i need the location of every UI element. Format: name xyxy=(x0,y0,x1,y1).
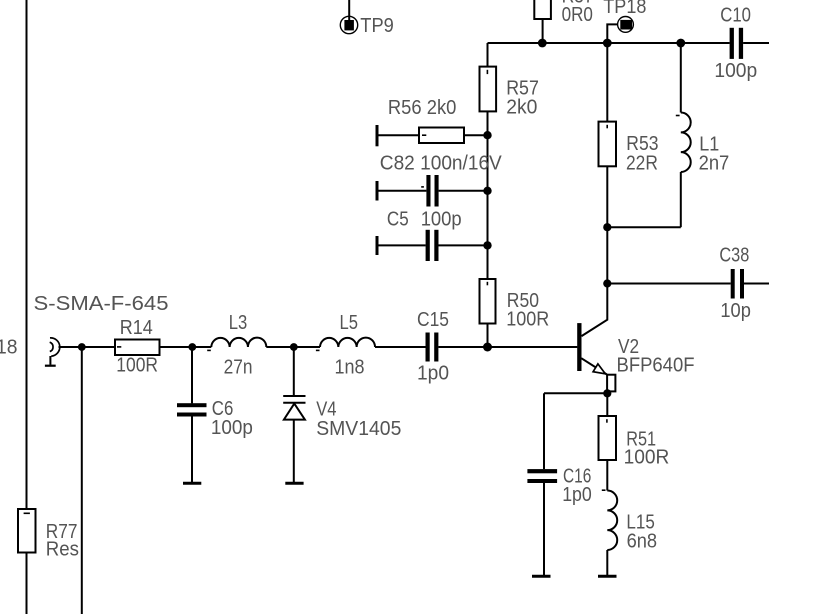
wire R51 bottom lead xyxy=(606,459,608,491)
ground below C6 xyxy=(183,482,201,485)
wire R50 bottom lead xyxy=(487,324,489,348)
wire left vertical net line upper xyxy=(26,0,28,509)
wire L1 node to collector node xyxy=(606,227,608,283)
svg-text:C5: C5 xyxy=(387,208,409,230)
node junction R50 bottom xyxy=(483,343,492,352)
capacitor C10 xyxy=(714,4,757,82)
wire top rail left segment xyxy=(488,42,730,44)
wire L5 to C15 xyxy=(375,346,426,348)
node junction L1 bottom xyxy=(603,223,611,231)
wire L15 bottom lead xyxy=(606,550,608,575)
node junction collector xyxy=(603,279,611,287)
svg-text:1p0: 1p0 xyxy=(562,484,592,506)
svg-text:R14: R14 xyxy=(120,317,153,339)
wire R53 bottom to L1 node xyxy=(606,166,608,227)
svg-text:R56 2k0: R56 2k0 xyxy=(388,97,457,119)
svg-text:SMV1405: SMV1405 xyxy=(316,418,401,440)
svg-text:10p: 10p xyxy=(720,300,751,322)
capacitor C38 xyxy=(719,244,769,322)
node junction at input xyxy=(78,343,86,351)
svg-text:C82 100n/16V: C82 100n/16V xyxy=(380,153,503,175)
resistor R56 xyxy=(377,97,488,146)
capacitor C16 xyxy=(527,465,591,506)
svg-text:22R: 22R xyxy=(626,152,658,174)
node junction C82 xyxy=(483,187,491,195)
node junction R56 xyxy=(483,131,491,139)
wire top rail right of C10 xyxy=(743,42,769,44)
svg-text:BFP640F: BFP640F xyxy=(617,355,695,377)
wire C6 top lead xyxy=(191,347,193,403)
inductor L3 xyxy=(207,312,266,379)
testpoint TP18 xyxy=(603,0,646,43)
resistor R51 xyxy=(599,416,670,469)
node junction emitter xyxy=(603,389,611,397)
wire C16 bottom lead xyxy=(543,483,545,575)
node junction L1 top xyxy=(676,39,685,48)
capacitor C82 xyxy=(377,153,502,207)
node junction C5 xyxy=(483,241,491,249)
wire V4 top lead xyxy=(293,347,295,395)
resistor R50 xyxy=(480,279,550,331)
resistor R14 xyxy=(115,317,160,377)
svg-text:L3: L3 xyxy=(229,312,248,334)
svg-text:100R: 100R xyxy=(506,309,549,331)
svg-text:0R0: 0R0 xyxy=(562,4,593,26)
wire rail2 top TP18 node to R53 xyxy=(606,43,608,122)
svg-text:1p0: 1p0 xyxy=(417,363,449,385)
wire L3 to L5 xyxy=(266,346,320,348)
node junction V4 tap xyxy=(290,343,298,351)
wire C6 bottom lead xyxy=(191,417,193,483)
connector X1 S-SMA-F-645 xyxy=(34,293,169,366)
node junction C6 tap xyxy=(188,343,196,351)
ground below L15 xyxy=(598,575,617,578)
inductor L5 xyxy=(316,312,375,379)
capacitor C15 xyxy=(417,309,449,385)
svg-text:2n7: 2n7 xyxy=(699,153,730,175)
svg-text:Res: Res xyxy=(46,538,79,560)
diode V4 SMV1405 varactor xyxy=(283,396,401,440)
svg-text:S-SMA-F-645: S-SMA-F-645 xyxy=(34,293,169,315)
svg-text:TP9: TP9 xyxy=(360,15,394,37)
resistor R53 xyxy=(599,122,659,175)
resistor R77 xyxy=(18,509,79,560)
svg-text:1n8: 1n8 xyxy=(335,357,365,379)
svg-text:100p: 100p xyxy=(714,60,757,82)
wire C16 top lead xyxy=(543,393,545,469)
resistor R5x 0R0 (clipped at top edge) xyxy=(534,0,594,43)
testpoint TP9 xyxy=(340,0,394,37)
wire C15 to base node xyxy=(438,346,577,348)
capacitor C5 xyxy=(377,208,488,261)
resistor R57 xyxy=(480,67,539,119)
ground below V4 xyxy=(285,482,303,485)
svg-text:C10: C10 xyxy=(720,4,751,26)
svg-text:C38: C38 xyxy=(719,244,749,266)
svg-text:2k0: 2k0 xyxy=(506,97,537,119)
svg-text:100p: 100p xyxy=(211,417,253,439)
wire left vertical net line lower xyxy=(26,553,28,614)
node junction TP18 tap xyxy=(603,39,612,48)
capacitor C6 xyxy=(177,398,253,439)
ground below C16 xyxy=(532,575,551,578)
svg-text:100R: 100R xyxy=(624,447,670,469)
wire vertical from input node to bottom edge xyxy=(81,347,83,614)
svg-text:100p: 100p xyxy=(421,208,462,230)
node junction R5x bottom xyxy=(538,39,547,48)
wire emitter node down to R51 xyxy=(606,393,608,416)
svg-text:TP18: TP18 xyxy=(603,0,646,18)
wire rail R57 bottom to R50 top xyxy=(487,111,489,279)
wire V4 bottom lead xyxy=(293,420,295,483)
svg-text:27n: 27n xyxy=(224,357,253,379)
svg-text:L5: L5 xyxy=(340,312,359,334)
svg-text:100R: 100R xyxy=(116,355,158,377)
svg-text:18: 18 xyxy=(0,337,18,359)
svg-text:C15: C15 xyxy=(417,309,449,331)
wire emitter node to C16 xyxy=(544,392,607,394)
transistor V2 BFP640F xyxy=(577,284,694,392)
inductor L1 xyxy=(607,43,729,227)
wire R14 to L3 xyxy=(160,346,212,348)
wire C38 rail xyxy=(607,283,730,285)
inductor L15 xyxy=(602,490,657,552)
wire SMA to R14 xyxy=(59,346,115,348)
svg-text:6n8: 6n8 xyxy=(627,531,658,553)
wire R57 top lead xyxy=(487,43,489,67)
